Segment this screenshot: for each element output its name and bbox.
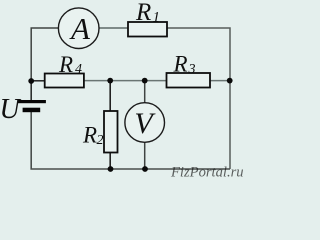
wire: middle row node to R4: [31, 80, 45, 82]
node dot voltmeter bottom: [142, 166, 148, 172]
wire: R2 branch vertical: [109, 81, 111, 111]
voltmeter circle: [125, 103, 165, 143]
wire: ammeter to R1: [100, 27, 129, 29]
svg-text:R: R: [58, 52, 73, 77]
svg-text:U: U: [0, 94, 22, 125]
svg-text:R: R: [173, 52, 188, 77]
svg-text:2: 2: [97, 133, 104, 148]
wire: R3 to right vertical: [210, 80, 230, 82]
node dot R2 bottom: [108, 166, 114, 172]
node dot R2 top: [107, 78, 113, 84]
wire: left vertical battery bottom to corner: [31, 112, 230, 169]
wire top-left: corner to ammeter: [31, 28, 58, 81]
wire: left vertical battery top: [30, 81, 32, 100]
ammeter U=A circle: [58, 8, 99, 49]
svg-text:1: 1: [153, 10, 161, 26]
svg-text:FizPortal.ru: FizPortal.ru: [170, 165, 244, 181]
wire: R2 bottom lead: [109, 153, 111, 170]
wire: voltmeter bottom lead: [144, 143, 146, 170]
svg-text:R: R: [135, 0, 151, 26]
battery cell long plate: [17, 100, 46, 103]
svg-text:3: 3: [188, 62, 196, 77]
svg-text:4: 4: [75, 62, 82, 77]
resistor R2 (vertical): [104, 111, 118, 153]
wire: R1 to top-right corner and down right side: [167, 28, 230, 169]
svg-text:R: R: [82, 123, 97, 148]
resistor R4: [45, 74, 84, 88]
node dot right: [227, 78, 233, 84]
svg-text:A: A: [69, 11, 91, 46]
resistor R1: [128, 22, 167, 37]
node dot left: [28, 78, 34, 84]
node dot voltmeter top: [142, 78, 148, 84]
wire: voltmeter top lead: [144, 81, 146, 103]
battery cell short plate: [23, 108, 41, 113]
wire: R4 to R3: [84, 80, 167, 82]
resistor R3: [167, 73, 211, 88]
